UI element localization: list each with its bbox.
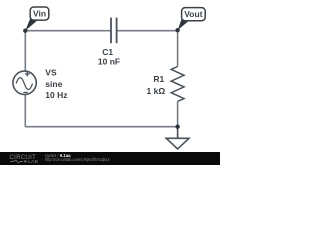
- resistor R1: [171, 67, 184, 102]
- wire top-left (Vin node to C1 left plate): [25, 30, 111, 32]
- svg-text:Vout: Vout: [184, 9, 202, 19]
- svg-text:1 kΩ: 1 kΩ: [147, 86, 166, 96]
- footer CircuitLab logo: [10, 154, 38, 165]
- wire left vertical lower (VS bottom to bottom rail): [24, 95, 26, 127]
- node bottom-right junction: [175, 125, 179, 129]
- footer bar: [0, 152, 220, 165]
- node Vout junction: [175, 28, 179, 32]
- svg-text:Vin: Vin: [33, 9, 46, 19]
- wire left vertical upper (Vin node to VS top): [24, 31, 26, 71]
- svg-text:C1: C1: [102, 47, 113, 57]
- node Vin junction: [23, 29, 27, 33]
- svg-text:http://circuitlab.com/c/5jmzf6: http://circuitlab.com/c/5jmzf67uqkzx: [45, 157, 110, 162]
- voltage source VS (sine): [13, 71, 36, 94]
- svg-text:R1: R1: [153, 74, 164, 84]
- capacitor C1: [111, 18, 117, 44]
- wire right vertical upper (Vout node to R1 top): [177, 31, 179, 67]
- svg-text:10 nF: 10 nF: [98, 57, 120, 67]
- svg-text:10 Hz: 10 Hz: [45, 90, 67, 100]
- svg-text:sine: sine: [45, 79, 62, 89]
- wire bottom rail: [25, 126, 177, 128]
- wire right vertical lower (R1 bottom to bottom rail): [177, 102, 179, 127]
- node Vout label: [178, 8, 206, 31]
- svg-text:LAB: LAB: [28, 159, 38, 165]
- node Vin label: [25, 7, 49, 31]
- svg-text:VS: VS: [45, 67, 57, 77]
- wire top-right (C1 right plate to Vout node): [117, 30, 178, 32]
- ground: [166, 127, 189, 149]
